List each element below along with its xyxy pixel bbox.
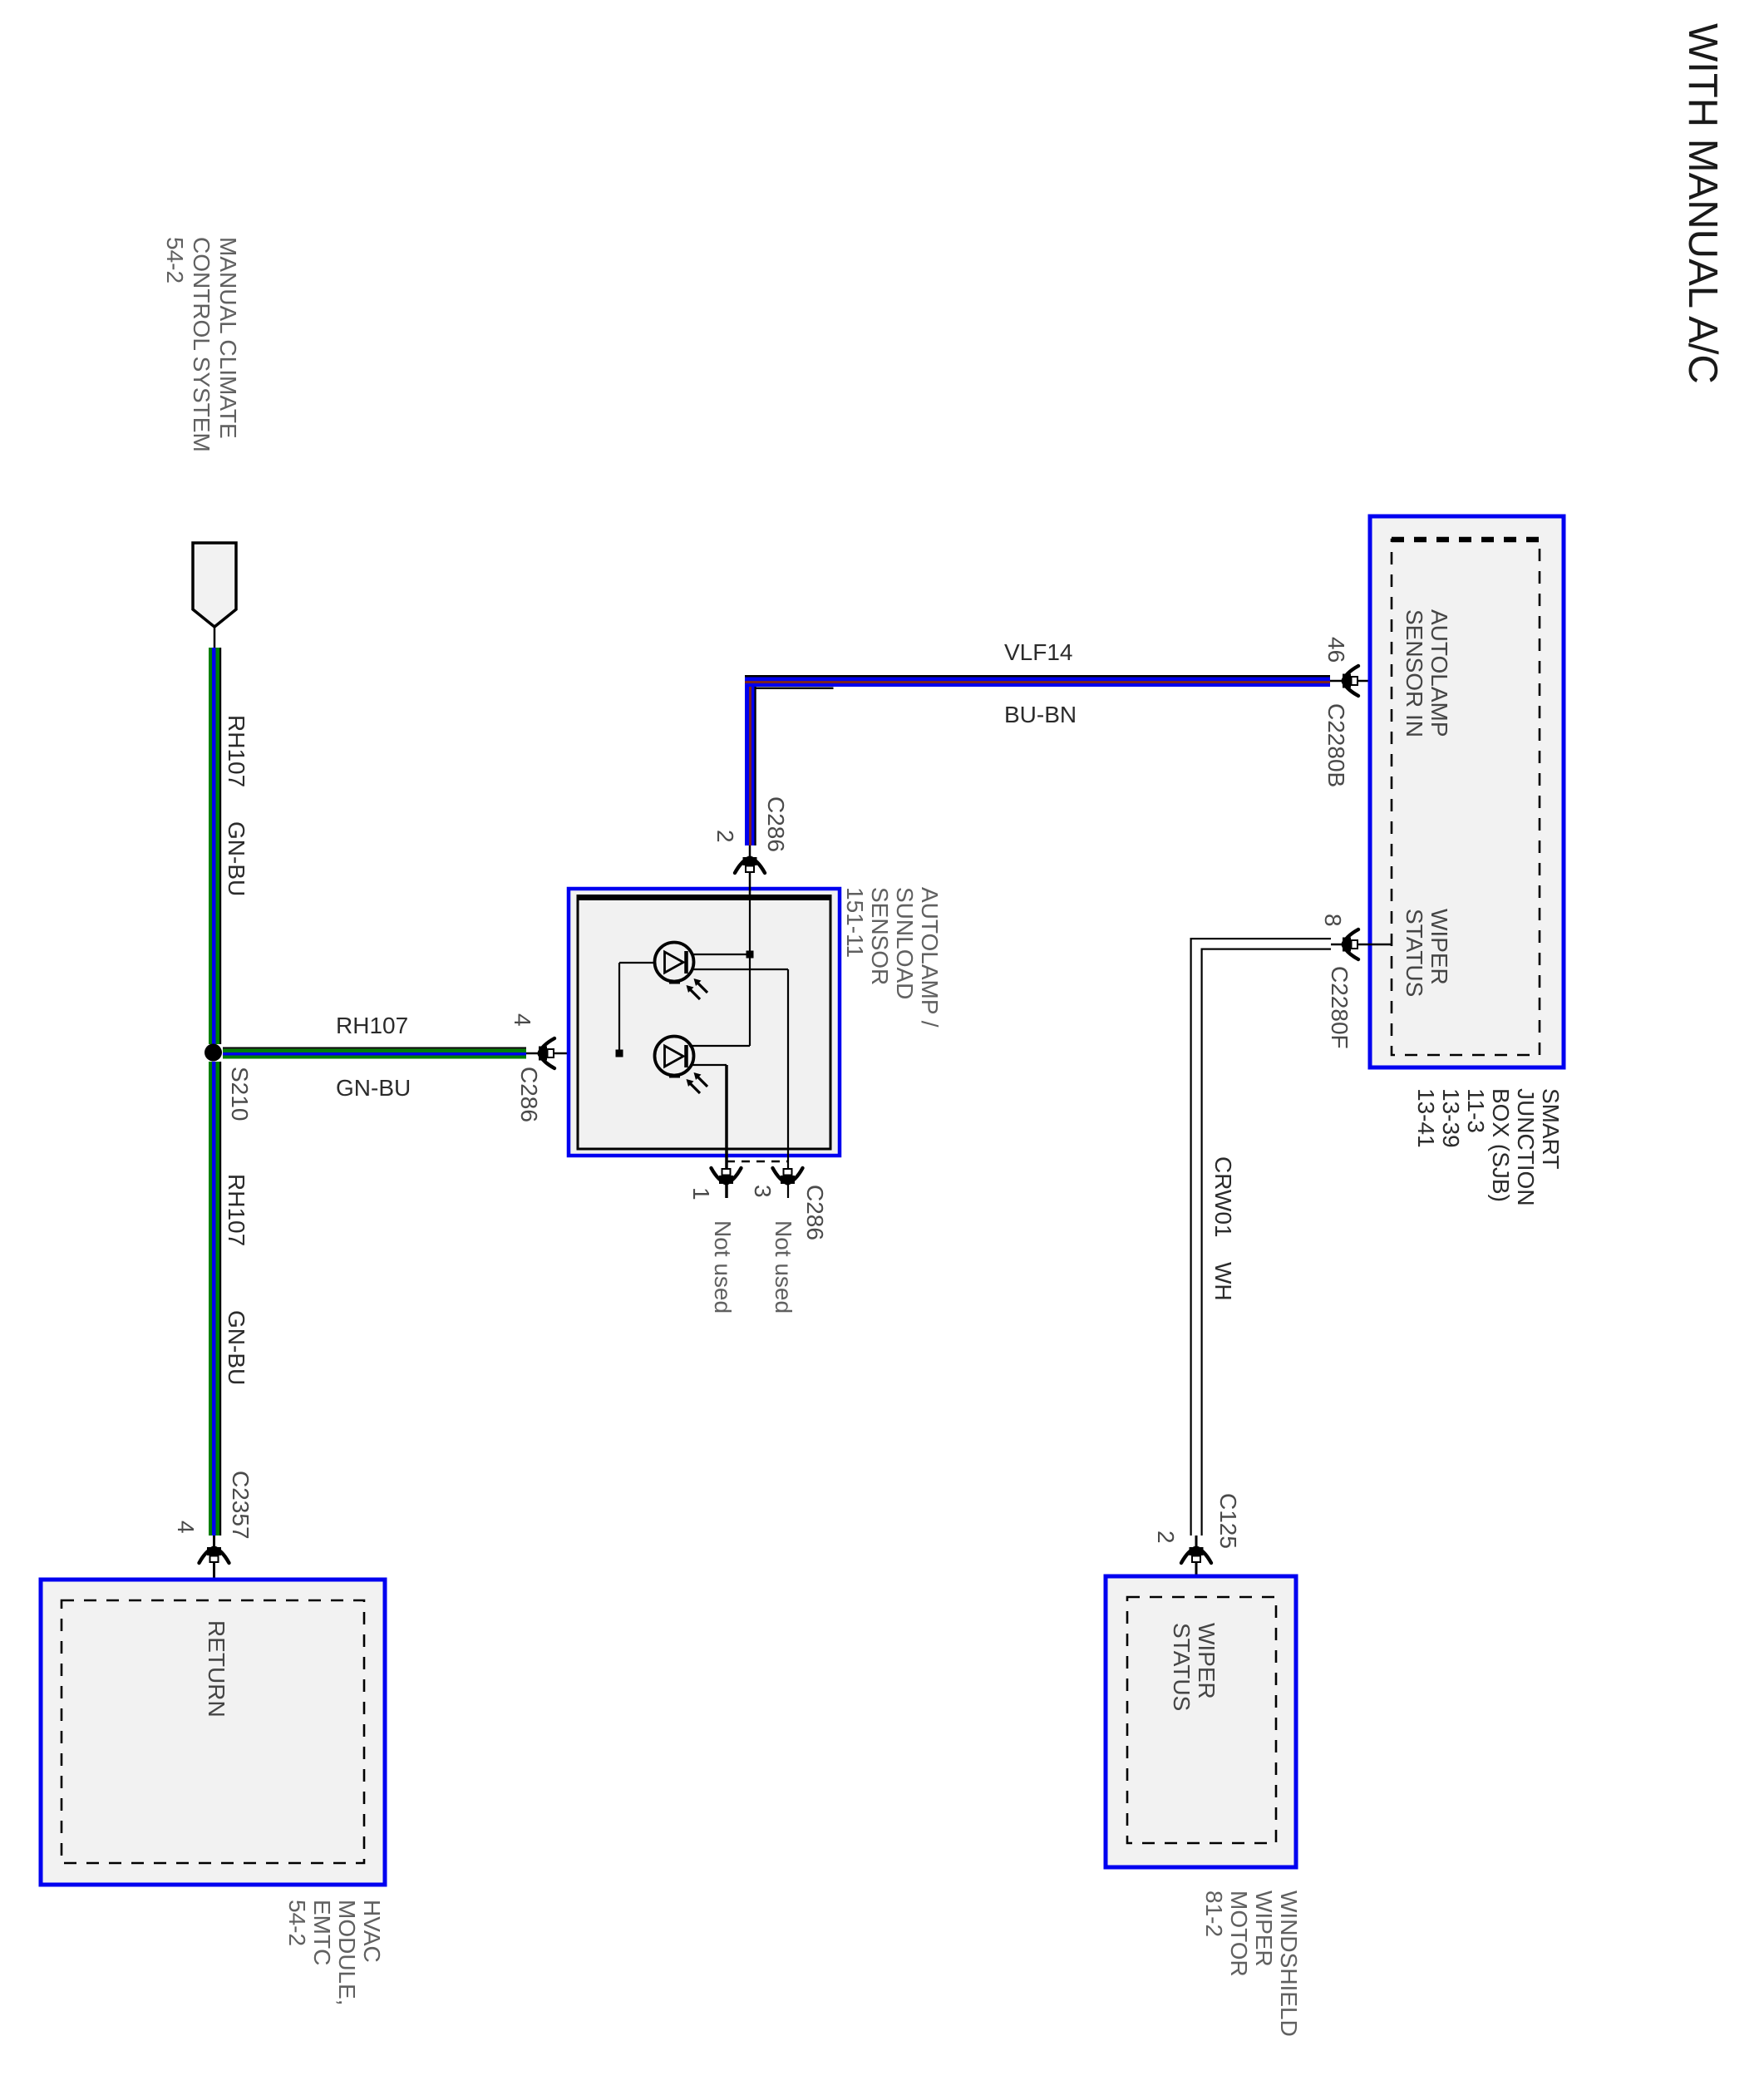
svg-text:MODULE,: MODULE, <box>334 1900 360 2006</box>
wire RH107 GN-BU (S210 to sunload sensor pin 4) <box>223 1047 526 1059</box>
label RH107 (lower vertical wire) <box>224 1174 249 1246</box>
component label HVAC MODULE, EMTC 54-2 <box>284 1900 385 2006</box>
svg-text:STATUS: STATUS <box>1402 909 1427 997</box>
label GN-BU (upper vertical wire) <box>224 821 249 896</box>
label WH <box>1210 1262 1236 1301</box>
svg-text:54-2: 54-2 <box>162 237 188 283</box>
svg-text:C125: C125 <box>1215 1493 1241 1549</box>
svg-text:151-11: 151-11 <box>842 887 868 958</box>
label GN-BU (lower vertical wire) <box>224 1310 249 1385</box>
connector label C286 (pin 4) <box>516 1067 542 1122</box>
svg-text:WIPER: WIPER <box>1194 1623 1220 1699</box>
svg-text:WITH MANUAL A/C: WITH MANUAL A/C <box>1680 23 1725 384</box>
connector label C2280B <box>1323 703 1349 787</box>
connector arrow C2280B (pointing left) <box>1343 666 1358 696</box>
svg-text:SUNLOAD: SUNLOAD <box>892 887 918 999</box>
svg-text:WINDSHIELD: WINDSHIELD <box>1276 1890 1302 2037</box>
connector label C286 (pin 2) <box>763 796 789 852</box>
HVAC module box <box>41 1580 385 1885</box>
svg-text:MANUAL CLIMATE: MANUAL CLIMATE <box>215 237 241 439</box>
component label WINDSHIELD WIPER MOTOR 81-2 <box>1201 1890 1302 2037</box>
connector arrow C286 pin 4 (pointing left) <box>539 1038 554 1068</box>
connector arrow C2357 (pointing up) <box>200 1547 229 1563</box>
svg-text:2: 2 <box>712 830 738 843</box>
svg-text:MOTOR: MOTOR <box>1226 1890 1252 1977</box>
label RH107 (upper vertical wire) <box>224 715 249 787</box>
label AUTOLAMP SENSOR IN <box>1402 609 1452 737</box>
label WIPER STATUS (SJB) <box>1402 909 1452 997</box>
svg-text:3: 3 <box>750 1185 776 1198</box>
svg-text:4: 4 <box>510 1013 535 1027</box>
wire into SJB pin 46 <box>1330 680 1391 683</box>
splice node S210 <box>204 1044 222 1062</box>
pin 3 label <box>750 1185 776 1198</box>
node label MANUAL CLIMATE CONTROL SYSTEM 54-2 <box>162 237 241 452</box>
connector label C286 (bottom) <box>802 1185 828 1240</box>
svg-text:VLF14: VLF14 <box>1004 639 1073 665</box>
wire into sensor pin 4 <box>526 1052 656 1055</box>
svg-text:WIPER: WIPER <box>1426 909 1452 985</box>
wire CRW01 WH (SJB pin 8 to wiper motor) <box>1190 938 1332 1536</box>
svg-text:BU-BN: BU-BN <box>1004 702 1077 727</box>
title WITH MANUAL A/C <box>1680 23 1725 384</box>
connector arrow C286 pin 1 (pointing down) <box>712 1168 742 1184</box>
svg-text:RH107: RH107 <box>336 1013 408 1038</box>
svg-text:CONTROL SYSTEM: CONTROL SYSTEM <box>189 237 214 452</box>
svg-text:13-41: 13-41 <box>1413 1088 1439 1148</box>
wire RH107 GN-BU (S210 to HVAC module) <box>209 1062 221 1536</box>
junction dot (pin 2 line / photodiode D1) <box>746 951 754 959</box>
svg-text:AUTOLAMP: AUTOLAMP <box>1426 609 1452 737</box>
svg-text:8: 8 <box>1320 914 1346 927</box>
connector arrow C125 (pointing up) <box>1181 1547 1211 1563</box>
svg-text:SENSOR IN: SENSOR IN <box>1402 609 1427 737</box>
off-page connector pentagon <box>193 543 236 648</box>
wire stub into HVAC <box>213 1536 215 1600</box>
component label SMART JUNCTION BOX (SJB) 11-3 13-39 13-41 <box>1413 1088 1564 1206</box>
svg-text:AUTOLAMP /: AUTOLAMP / <box>917 887 943 1028</box>
smart junction box <box>1370 516 1564 1067</box>
svg-text:C286: C286 <box>763 796 789 852</box>
svg-text:JUNCTION: JUNCTION <box>1513 1088 1539 1206</box>
svg-text:RETURN: RETURN <box>204 1620 229 1718</box>
pin 46 label <box>1323 637 1349 663</box>
label CRW01 <box>1210 1156 1236 1238</box>
wire into SJB pin 8 <box>1331 944 1391 946</box>
svg-text:C286: C286 <box>516 1067 542 1122</box>
svg-text:54-2: 54-2 <box>284 1900 310 1946</box>
svg-text:2: 2 <box>1153 1531 1179 1544</box>
photodiode D2 <box>655 1037 708 1094</box>
svg-text:81-2: 81-2 <box>1201 1890 1227 1937</box>
svg-text:GN-BU: GN-BU <box>224 821 249 896</box>
label S210 <box>227 1067 253 1121</box>
svg-text:HVAC: HVAC <box>359 1900 385 1963</box>
svg-text:STATUS: STATUS <box>1169 1623 1195 1711</box>
wire RH107 GN-BU (pentagon to S210) <box>209 648 221 1044</box>
svg-text:C2280F: C2280F <box>1327 966 1353 1049</box>
svg-text:1: 1 <box>688 1187 714 1200</box>
connector arrow C286 pin 2 (pointing up) <box>735 857 765 873</box>
component label AUTOLAMP / SUNLOAD SENSOR 151-11 <box>842 887 943 1028</box>
label RETURN <box>204 1620 229 1718</box>
connector arrow C286 pin 3 (pointing down) <box>773 1168 803 1184</box>
svg-text:EMTC: EMTC <box>309 1900 335 1965</box>
pin 2 label (sensor) <box>712 830 738 843</box>
svg-text:SMART: SMART <box>1538 1088 1564 1170</box>
photodiode D1 <box>655 943 708 1000</box>
pin 2 label (wiper motor) <box>1153 1531 1179 1544</box>
pin 4 label (sensor) <box>510 1013 535 1027</box>
connector label C2357 <box>228 1471 254 1540</box>
pin 4 label (HVAC) <box>173 1521 199 1534</box>
windshield wiper motor box <box>1106 1576 1296 1867</box>
svg-text:GN-BU: GN-BU <box>336 1075 411 1101</box>
svg-text:Not used: Not used <box>710 1220 736 1314</box>
label WIPER STATUS (wiper motor) <box>1169 1623 1220 1711</box>
connector label C125 <box>1215 1493 1241 1549</box>
svg-text:RH107: RH107 <box>224 1174 249 1246</box>
wire stub into wiper motor pin 2 <box>1195 1536 1198 1600</box>
wire pin 2 vertical (into sensor) <box>689 896 750 1046</box>
svg-text:S210: S210 <box>227 1067 253 1121</box>
wire VLF14 BU-BN (sensor pin 2 up and right to SJB pin 46) <box>745 675 1330 845</box>
connector label C2280F <box>1327 966 1353 1049</box>
wire photodiode D1 anode lead <box>692 954 750 955</box>
svg-text:46: 46 <box>1323 637 1349 663</box>
svg-text:BOX (SJB): BOX (SJB) <box>1488 1088 1514 1202</box>
wire photodiode D1 cathode to pin 3 <box>692 969 788 1198</box>
label Not used (pin 1) <box>710 1220 736 1314</box>
pin 1 label <box>688 1187 714 1200</box>
svg-text:RH107: RH107 <box>224 715 249 787</box>
svg-text:C286: C286 <box>802 1185 828 1240</box>
svg-text:CRW01: CRW01 <box>1210 1156 1236 1238</box>
connector C286 dashed tie (pins 1,3) <box>727 1161 788 1163</box>
svg-text:11-3: 11-3 <box>1463 1088 1489 1133</box>
pin 8 label <box>1320 914 1346 927</box>
autolamp/sunload sensor box <box>569 889 840 1156</box>
svg-text:C2357: C2357 <box>228 1471 254 1540</box>
svg-text:WIPER: WIPER <box>1251 1890 1277 1967</box>
junction dot (pin 4 line / photodiode D1) <box>616 1050 623 1057</box>
svg-text:WH: WH <box>1210 1262 1236 1301</box>
wire photodiode D2 cathode to pin 1 <box>691 1065 727 1198</box>
svg-text:C2280B: C2280B <box>1323 703 1349 787</box>
svg-text:GN-BU: GN-BU <box>224 1310 249 1385</box>
wire stub into sensor pin 2 <box>749 845 751 895</box>
svg-text:Not used: Not used <box>771 1220 796 1314</box>
svg-text:4: 4 <box>173 1521 199 1534</box>
wire photodiode D1 left lead to pin 4 net <box>619 963 656 1053</box>
label Not used (pin 3) <box>771 1220 796 1314</box>
svg-text:13-39: 13-39 <box>1438 1088 1464 1148</box>
svg-text:SENSOR: SENSOR <box>867 887 893 985</box>
connector arrow C2280F (pointing left) <box>1343 929 1358 959</box>
